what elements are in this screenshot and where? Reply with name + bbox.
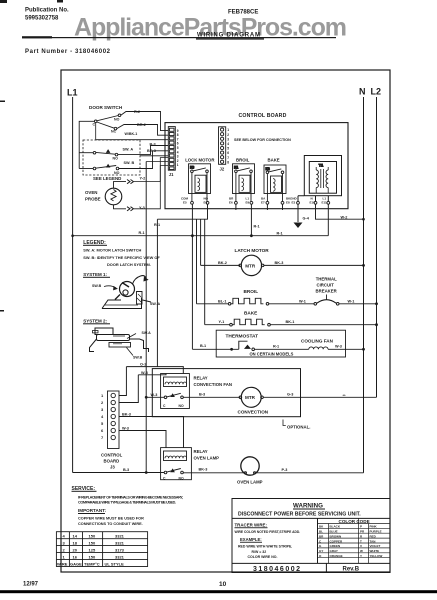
svg-text:W/BK-1: W/BK-1 — [125, 132, 138, 136]
svg-text:W-2: W-2 — [341, 215, 348, 219]
svg-text:MTR: MTR — [245, 395, 256, 400]
svg-text:3: 3 — [227, 137, 229, 141]
svg-text:C: C — [163, 404, 166, 408]
svg-text:E6: E6 — [229, 201, 233, 205]
svg-text:COPPER: COPPER — [330, 539, 344, 543]
svg-text:B-3: B-3 — [199, 393, 205, 397]
svg-text:BAKE: BAKE — [268, 157, 280, 162]
svg-text:TEMP°C: TEMP°C — [84, 561, 100, 566]
svg-text:SW. A: SW. A — [150, 302, 160, 306]
svg-text:3: 3 — [101, 407, 104, 412]
svg-text:LOCK MOTOR: LOCK MOTOR — [185, 157, 215, 162]
svg-text:10: 10 — [219, 581, 227, 588]
svg-text:G-3: G-3 — [287, 393, 293, 397]
svg-text:7: 7 — [227, 156, 229, 160]
svg-text:150: 150 — [89, 533, 96, 538]
svg-text:E3: E3 — [292, 201, 296, 205]
svg-text:4: 4 — [63, 533, 66, 538]
svg-text:DOOR SWITCH: DOOR SWITCH — [89, 105, 123, 110]
svg-text:UL STYLE: UL STYLE — [105, 561, 125, 566]
svg-text:R-2: R-2 — [134, 110, 140, 114]
svg-text:MTR: MTR — [245, 263, 256, 268]
svg-text:PURPLE: PURPLE — [370, 530, 382, 534]
svg-text:P: P — [360, 525, 362, 529]
svg-text:R-1: R-1 — [277, 231, 283, 235]
svg-text:R-1: R-1 — [154, 223, 160, 227]
svg-text:E4: E4 — [204, 201, 208, 205]
svg-text:SW.B: SW.B — [133, 355, 143, 359]
svg-text:OVEN LAMP: OVEN LAMP — [194, 456, 220, 461]
svg-text:WIRE: WIRE — [57, 561, 68, 566]
svg-text:Y-1: Y-1 — [219, 320, 225, 324]
svg-text:ORANGE: ORANGE — [330, 554, 343, 558]
svg-text:R-1: R-1 — [139, 231, 145, 235]
svg-text:K3: K3 — [190, 166, 194, 170]
svg-text:2: 2 — [63, 547, 66, 552]
svg-text:SYSTEM 1:: SYSTEM 1: — [83, 272, 107, 277]
svg-text:16: 16 — [73, 554, 78, 559]
svg-text:RED WIRE WITH WHITE STRIPE.: RED WIRE WITH WHITE STRIPE. — [238, 545, 292, 549]
svg-text:G-4: G-4 — [303, 217, 310, 221]
svg-text:B-1: B-1 — [200, 344, 206, 348]
svg-text:VIOLET: VIOLET — [370, 544, 381, 548]
svg-text:WARNING: WARNING — [293, 503, 323, 510]
svg-text:WHITE: WHITE — [370, 549, 380, 553]
svg-text:8: 8 — [227, 160, 229, 164]
svg-text:5: 5 — [101, 421, 104, 426]
svg-text:5: 5 — [227, 147, 229, 151]
svg-text:SW. A: MOTOR LATCH SWITCH: SW. A: MOTOR LATCH SWITCH — [83, 247, 141, 252]
svg-text:PROBE: PROBE — [85, 197, 101, 202]
svg-text:DOOR LATCH SYSTEM.: DOOR LATCH SYSTEM. — [107, 262, 151, 267]
svg-text:C: C — [93, 123, 96, 127]
svg-text:P-3: P-3 — [282, 468, 288, 472]
svg-text:SEE LEGEND: SEE LEGEND — [93, 176, 121, 181]
svg-text:BK-1: BK-1 — [286, 320, 295, 324]
svg-text:OPTIONAL.: OPTIONAL. — [287, 424, 310, 429]
svg-text:125: 125 — [89, 547, 96, 552]
svg-text:TRACER WIRE:: TRACER WIRE: — [235, 522, 268, 527]
svg-text:IMPORTANT:: IMPORTANT: — [78, 508, 106, 513]
svg-text:ON CERTAIN MODELS: ON CERTAIN MODELS — [250, 351, 294, 356]
svg-text:**: ** — [343, 393, 347, 398]
svg-text:4: 4 — [101, 414, 104, 419]
svg-text:B-3: B-3 — [123, 468, 129, 472]
svg-text:W-3: W-3 — [335, 345, 342, 349]
svg-text:NO: NO — [114, 118, 120, 122]
svg-text:BREAKER: BREAKER — [316, 288, 338, 293]
svg-text:150: 150 — [89, 554, 96, 559]
svg-text:BAKE: BAKE — [244, 310, 257, 315]
svg-text:W-1: W-1 — [299, 299, 306, 303]
svg-text:SW. A: SW. A — [123, 148, 134, 152]
svg-text:IF REPLACEMENT OF TERMINALS OR: IF REPLACEMENT OF TERMINALS OR WIRING BE… — [78, 495, 183, 499]
svg-text:GAGE: GAGE — [70, 561, 82, 566]
svg-text:BROIL: BROIL — [244, 289, 259, 294]
svg-text:GRAY: GRAY — [330, 549, 338, 553]
svg-text:W-3: W-3 — [141, 371, 148, 375]
svg-text:R/W = 32: R/W = 32 — [252, 550, 267, 554]
svg-text:N: N — [359, 87, 366, 97]
svg-text:Publication No.: Publication No. — [25, 8, 69, 14]
svg-text:5995302758: 5995302758 — [25, 16, 59, 22]
svg-text:6: 6 — [101, 428, 104, 433]
svg-text:W: W — [360, 549, 363, 553]
svg-text:R-1: R-1 — [273, 345, 279, 349]
svg-text:Y: Y — [360, 554, 362, 558]
svg-text:E8: E8 — [286, 201, 290, 205]
svg-text:E9: E9 — [246, 201, 250, 205]
svg-text:NO: NO — [113, 157, 119, 161]
svg-text:THERMAL: THERMAL — [316, 276, 337, 281]
svg-text:LATCH MOTOR: LATCH MOTOR — [235, 248, 270, 253]
svg-text:COPPER WIRE MUST BE USED FOR: COPPER WIRE MUST BE USED FOR — [78, 517, 144, 521]
svg-text:BK-3: BK-3 — [275, 261, 284, 265]
svg-text:EXAMPLE:: EXAMPLE: — [240, 537, 262, 542]
svg-text:12/97: 12/97 — [23, 582, 39, 588]
svg-text:BL-1: BL-1 — [218, 299, 226, 303]
svg-text:BLACK: BLACK — [330, 525, 341, 529]
svg-text:K1: K1 — [234, 166, 238, 170]
svg-text:E5: E5 — [183, 201, 187, 205]
svg-text:BK-3: BK-3 — [122, 413, 131, 417]
svg-text:E10: E10 — [310, 201, 316, 205]
svg-text:COMPARABLE WIRE TYPE,GAGE & TE: COMPARABLE WIRE TYPE,GAGE & TERMINALS MU… — [78, 501, 176, 505]
svg-text:O-3: O-3 — [140, 363, 146, 367]
svg-text:W-3: W-3 — [151, 393, 158, 397]
svg-text:4: 4 — [227, 142, 229, 146]
svg-text:SEE BELOW FOR CONNECTION: SEE BELOW FOR CONNECTION — [234, 138, 291, 142]
svg-text:Part Number - 318046002: Part Number - 318046002 — [25, 49, 111, 55]
svg-text:BLUE: BLUE — [330, 530, 338, 534]
svg-text:BOARD: BOARD — [104, 458, 120, 463]
svg-text:CONVECTION: CONVECTION — [238, 409, 269, 414]
svg-text:RED: RED — [370, 534, 377, 538]
svg-text:R-1: R-1 — [254, 225, 260, 229]
svg-text:3173: 3173 — [115, 547, 125, 552]
svg-text:CONTROL BOARD: CONTROL BOARD — [239, 113, 287, 119]
svg-text:18: 18 — [73, 540, 78, 545]
svg-text:L1: L1 — [67, 88, 78, 98]
svg-text:6: 6 — [227, 151, 229, 155]
svg-text:E11: E11 — [322, 201, 328, 205]
svg-text:NO: NO — [114, 171, 120, 175]
svg-text:1: 1 — [227, 128, 229, 132]
svg-text:OVEN LAMP: OVEN LAMP — [237, 479, 263, 484]
svg-text:1: 1 — [101, 393, 104, 398]
svg-text:318046002: 318046002 — [253, 566, 300, 573]
svg-text:RELAY: RELAY — [194, 449, 208, 454]
svg-text:SW. B: SW. B — [124, 161, 135, 165]
svg-text:GREEN: GREEN — [330, 544, 341, 548]
svg-text:Rev.B: Rev.B — [343, 567, 360, 573]
svg-text:DISCONNECT POWER BEFORE SERVIC: DISCONNECT POWER BEFORE SERVICING UNIT. — [238, 511, 361, 517]
svg-text:K2: K2 — [266, 167, 270, 171]
svg-text:COOLING FAN: COOLING FAN — [301, 338, 334, 343]
svg-text:3321: 3321 — [115, 540, 125, 545]
svg-text:Y-3: Y-3 — [139, 206, 145, 210]
svg-text:NO: NO — [179, 404, 184, 408]
svg-text:V: V — [360, 544, 362, 548]
svg-text:2: 2 — [227, 133, 229, 137]
svg-text:WIRE COLOR NOTED FIRST,STRIPE: WIRE COLOR NOTED FIRST,STRIPE ADD. — [235, 530, 301, 534]
svg-text:E7: E7 — [261, 201, 265, 205]
svg-text:RELAY: RELAY — [194, 375, 208, 380]
svg-text:SW.A: SW.A — [142, 331, 152, 335]
svg-text:J2: J2 — [220, 167, 225, 172]
svg-text:T1: T1 — [319, 162, 324, 167]
svg-text:PINK: PINK — [370, 525, 378, 529]
svg-text:YELLOW: YELLOW — [370, 554, 383, 558]
svg-text:TAN: TAN — [370, 539, 376, 543]
svg-text:3321: 3321 — [115, 554, 125, 559]
svg-text:CONVECTION FAN: CONVECTION FAN — [194, 382, 232, 387]
svg-text:1: 1 — [177, 163, 179, 167]
svg-text:2: 2 — [101, 400, 104, 405]
svg-text:3321: 3321 — [115, 533, 125, 538]
svg-text:SW. B: IDENTIFY THE SPECIFIC: SW. B: IDENTIFY THE SPECIFIC VIEW OF — [83, 255, 160, 260]
svg-text:W-1: W-1 — [348, 299, 355, 303]
svg-text:THERMOSTAT: THERMOSTAT — [226, 333, 259, 339]
svg-text:T: T — [360, 539, 362, 543]
svg-text:J3: J3 — [110, 464, 115, 469]
svg-text:20: 20 — [73, 547, 78, 552]
svg-text:BL: BL — [319, 530, 323, 534]
svg-text:150: 150 — [89, 540, 96, 545]
svg-text:NO: NO — [179, 476, 184, 480]
svg-text:BK-2: BK-2 — [218, 261, 227, 265]
svg-text:14: 14 — [73, 533, 78, 538]
svg-text:3: 3 — [63, 540, 66, 545]
svg-text:BROWN: BROWN — [330, 534, 342, 538]
svg-text:SYSTEM 2:: SYSTEM 2: — [83, 318, 107, 323]
svg-text:W-3: W-3 — [122, 427, 129, 431]
svg-text:COLOR CODE: COLOR CODE — [339, 519, 370, 524]
svg-text:7: 7 — [101, 435, 104, 440]
svg-text:OVEN: OVEN — [85, 190, 97, 195]
svg-text:J1: J1 — [169, 172, 174, 177]
svg-text:COLOR WIRE NO.: COLOR WIRE NO. — [248, 555, 278, 559]
svg-text:L2: L2 — [371, 87, 382, 97]
svg-text:BROIL: BROIL — [236, 157, 250, 162]
svg-text:BK-3: BK-3 — [199, 468, 208, 472]
svg-text:BR-2: BR-2 — [137, 123, 146, 127]
svg-text:1: 1 — [63, 554, 66, 559]
svg-text:CONNECTIONS TO CONDUIT WIRE.: CONNECTIONS TO CONDUIT WIRE. — [78, 522, 143, 526]
svg-text:GY: GY — [319, 549, 323, 553]
svg-text:CONTROL: CONTROL — [101, 452, 123, 457]
svg-text:CIRCUIT: CIRCUIT — [317, 282, 335, 287]
svg-text:Y-2: Y-2 — [140, 176, 146, 180]
svg-text:SW.B: SW.B — [92, 284, 102, 288]
